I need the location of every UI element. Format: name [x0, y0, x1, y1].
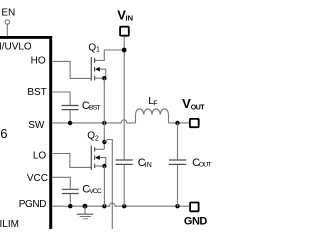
svg-text:LO: LO — [33, 151, 47, 162]
svg-text:HO: HO — [31, 56, 46, 67]
wire Q2 source stub — [95, 165, 105, 167]
svg-text:OUT: OUT — [199, 162, 212, 169]
wire BST to CBST top — [52, 92, 70, 105]
node PGND junction CVCC — [68, 204, 72, 208]
inductor LF — [136, 109, 169, 123]
wire Q2 drain stub — [95, 148, 105, 150]
IC U1 box (top and right edges, cropped at left/bottom) — [0, 36, 52, 229]
wire Q1 body tie — [99, 69, 105, 78]
node PGND junction Q2 source — [102, 204, 106, 208]
Q1 body arrow — [95, 67, 100, 72]
svg-text:IN: IN — [126, 14, 134, 23]
node SW junction CBST — [68, 121, 72, 125]
node Q2 drain / ILIM tap — [102, 140, 106, 144]
wire CVCC bottom to PGND rail — [69, 194, 71, 206]
node PGND junction CIN — [122, 204, 126, 208]
capacitor CIN — [116, 160, 133, 164]
svg-text:1: 1 — [96, 47, 100, 54]
svg-text:GND: GND — [184, 216, 208, 228]
wire Q1 source stub — [95, 77, 105, 79]
svg-text:IN: IN — [145, 162, 152, 169]
svg-text:PGND: PGND — [19, 199, 47, 210]
svg-text:EN/UVLO: EN/UVLO — [0, 42, 32, 53]
wire PGND rail (hop over ILIM sense wire) — [52, 203, 189, 206]
svg-text:VCC: VCC — [27, 173, 48, 184]
wire SW pin to inductor (hop over VIN rail) — [52, 120, 135, 123]
wire EN stem — [6, 24, 8, 36]
svg-text:F: F — [153, 100, 157, 107]
wire HO to Q1 gate — [52, 61, 91, 78]
node VIN junction Q1 drain — [122, 48, 127, 53]
wire inductor to VOUT terminal — [169, 122, 190, 124]
wire Q2 source to PGND rail — [103, 166, 105, 206]
capacitor COUT — [169, 160, 186, 164]
node Q1 source junction — [102, 76, 106, 80]
terminal VIN — [120, 27, 129, 36]
node SW junction FET chain — [102, 121, 106, 125]
wire CBST bottom to SW net — [69, 110, 71, 123]
svg-text:V: V — [182, 96, 191, 111]
svg-text:VCC: VCC — [89, 188, 102, 195]
svg-text:BST: BST — [89, 105, 101, 112]
wire Q1 drain to VIN rail — [95, 50, 125, 60]
wire Q2 body tie — [99, 158, 105, 166]
wire CIN bottom to PGND rail — [123, 165, 125, 206]
svg-text:EN: EN — [1, 8, 15, 19]
wire COUT bottom to PGND rail — [177, 165, 179, 206]
svg-text:BST: BST — [27, 87, 46, 98]
svg-text:SW: SW — [28, 120, 45, 131]
node Q2 source junction — [102, 164, 106, 168]
wire VIN rail (down to CIN) — [123, 37, 125, 160]
Q2 body arrow — [95, 155, 100, 160]
node PGND junction COUT — [175, 204, 179, 208]
wire SW node vertical (Q1 source to Q2 drain) — [103, 78, 105, 149]
capacitor CVCC — [62, 189, 79, 193]
svg-text:OUT: OUT — [191, 104, 206, 111]
transistor Q2 (low-side NMOS) — [91, 146, 94, 170]
terminal GND — [190, 203, 199, 212]
wire VCC to CVCC top — [52, 177, 70, 189]
svg-text:46: 46 — [0, 126, 7, 141]
pin EN terminal circle — [5, 20, 9, 24]
wire COUT top lead — [177, 123, 179, 159]
ground — [77, 206, 94, 219]
svg-text:ILIM: ILIM — [0, 219, 19, 229]
node VOUT junction COUT — [175, 121, 179, 125]
capacitor CBST — [62, 106, 79, 110]
wire LO to Q2 gate — [52, 154, 91, 168]
wire ILIM current sense (crosses PGND rail) — [104, 140, 112, 230]
terminal VOUT — [190, 119, 199, 127]
transistor Q1 (high-side NMOS) — [91, 57, 94, 81]
node PGND junction ground — [83, 204, 88, 209]
svg-text:2: 2 — [95, 136, 99, 143]
